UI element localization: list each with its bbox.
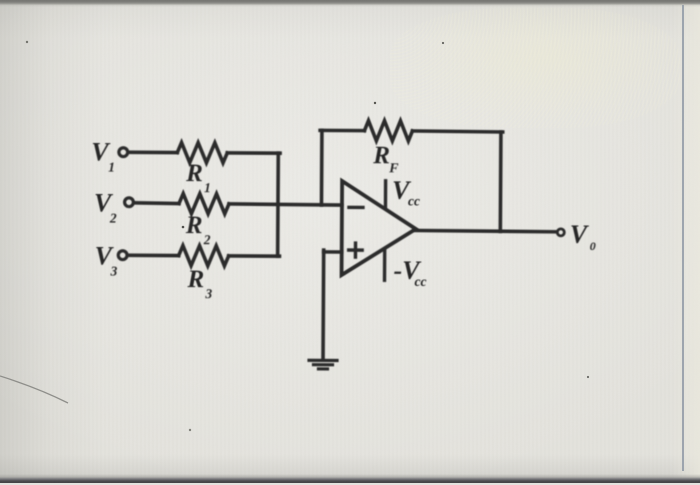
+Vcc supply pin [384, 181, 388, 208]
feedback tap vertical wire [320, 130, 324, 205]
wire R2 to op-amp inverting input [229, 204, 342, 205]
svg-text:cc: cc [408, 193, 420, 208]
label R2 [185, 212, 211, 247]
svg-text:3: 3 [204, 286, 212, 301]
speck above RF [374, 102, 376, 104]
wire V2 to R2 [134, 201, 179, 205]
terminal V3 [118, 251, 127, 260]
op-amp U1 [342, 181, 417, 275]
label +Vcc [392, 176, 420, 209]
speck near R2 label [182, 226, 185, 229]
node V3 label [95, 242, 118, 279]
label RF [372, 142, 399, 176]
output wire [414, 230, 557, 231]
node V2 label [94, 189, 117, 226]
svg-text:cc: cc [414, 274, 426, 289]
svg-text:R: R [186, 266, 204, 293]
resistor RF [364, 121, 412, 141]
node V1 label [91, 138, 115, 175]
junction vertical wire [276, 153, 280, 256]
terminal V0 [557, 229, 564, 236]
resistor R2 [179, 194, 229, 214]
speck upper middle [442, 42, 444, 44]
stray hair curve bottom-left [0, 376, 68, 403]
wire non-inverting input stub [324, 250, 342, 254]
label R3 [186, 266, 212, 301]
svg-text:F: F [388, 161, 399, 176]
svg-text:R: R [185, 160, 203, 187]
speck upper left [26, 41, 28, 43]
op-amp inverting - sign [349, 206, 363, 209]
label -Vcc [393, 256, 426, 289]
node V0 label [570, 220, 596, 253]
svg-text:3: 3 [110, 264, 118, 279]
wire R1 to junction [227, 151, 280, 155]
ground [309, 360, 337, 369]
resistor R1 [177, 143, 227, 163]
resistor R3 [179, 246, 229, 266]
wire V1 to R1 [129, 150, 177, 154]
terminal V2 [125, 198, 134, 207]
label R1 [185, 160, 211, 195]
svg-text:2: 2 [203, 232, 211, 247]
op-amp non-inverting + sign [349, 243, 363, 257]
wire V3 to R3 [128, 253, 178, 257]
wire to ground [321, 250, 325, 359]
svg-text:R: R [185, 212, 203, 239]
-Vcc supply pin [383, 250, 387, 280]
svg-text:R: R [372, 142, 390, 169]
feedback top wire right [412, 131, 502, 132]
svg-text:V: V [570, 220, 590, 249]
svg-text:1: 1 [108, 160, 115, 175]
wire R3 to junction [229, 254, 280, 258]
speck lower left [189, 429, 191, 431]
feedback top wire left [320, 129, 364, 133]
svg-text:2: 2 [109, 211, 117, 226]
speck lower right [587, 376, 589, 378]
svg-text:1: 1 [204, 180, 211, 195]
svg-text:0: 0 [590, 239, 596, 253]
feedback right vertical wire [499, 132, 503, 231]
terminal V1 [119, 148, 128, 157]
